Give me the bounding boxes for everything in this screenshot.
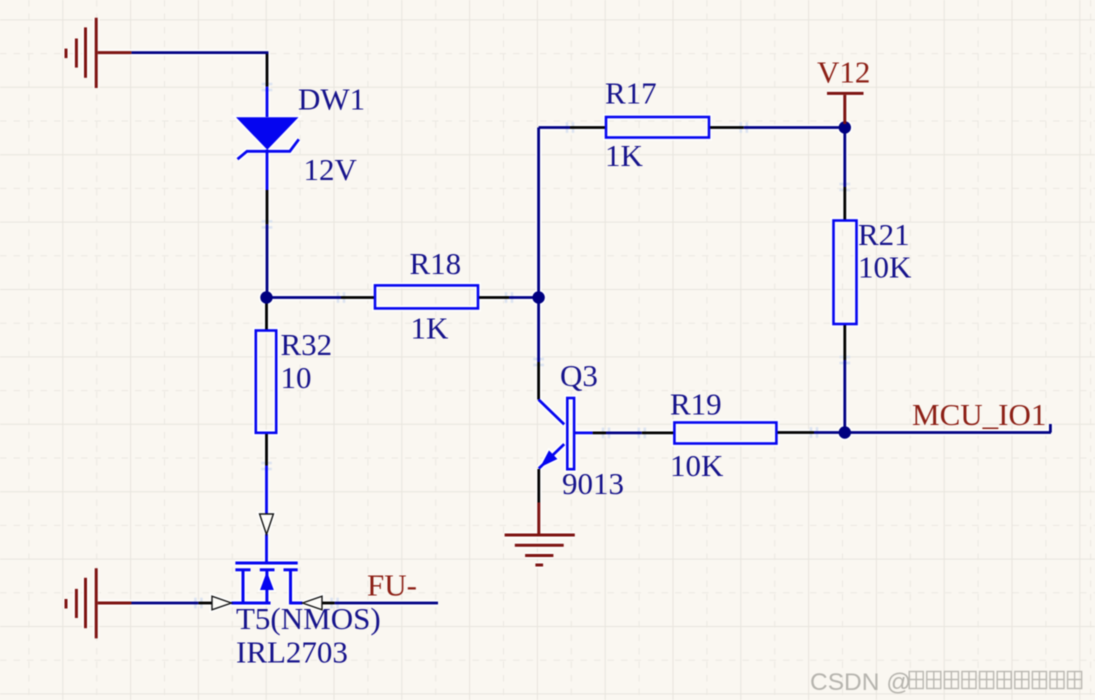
svg-text:1K: 1K (411, 310, 450, 345)
svg-text:9013: 9013 (562, 466, 624, 501)
svg-text:MCU_IO1: MCU_IO1 (912, 397, 1046, 432)
svg-text:1K: 1K (605, 138, 644, 173)
svg-text:R32: R32 (281, 327, 333, 362)
svg-text:R18: R18 (410, 246, 462, 281)
svg-text:10K: 10K (670, 448, 724, 483)
svg-text:R17: R17 (605, 75, 657, 110)
svg-text:T5(NMOS): T5(NMOS) (236, 601, 381, 636)
svg-text:10: 10 (281, 360, 312, 395)
svg-text:V12: V12 (817, 54, 870, 89)
svg-text:DW1: DW1 (298, 82, 365, 117)
svg-text:IRL2703: IRL2703 (236, 634, 348, 669)
svg-text:R19: R19 (670, 387, 722, 422)
svg-text:FU-: FU- (367, 568, 417, 603)
svg-text:R21: R21 (858, 217, 910, 252)
svg-text:12V: 12V (304, 152, 358, 187)
svg-text:Q3: Q3 (560, 358, 598, 393)
svg-text:CSDN @: CSDN @ (810, 669, 911, 696)
svg-text:10K: 10K (858, 249, 912, 284)
